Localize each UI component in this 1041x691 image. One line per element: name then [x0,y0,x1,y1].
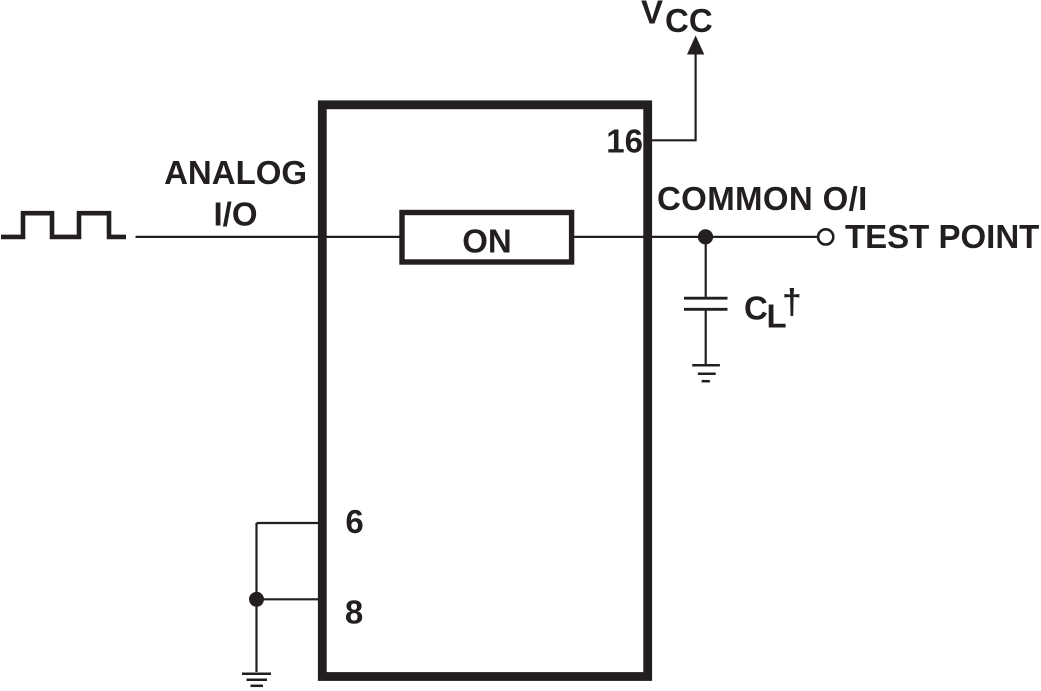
svg-text:TEST POINT: TEST POINT [845,218,1039,255]
svg-text:C: C [744,289,768,326]
svg-text:8: 8 [345,594,363,631]
svg-text:COMMON O/I: COMMON O/I [657,180,868,217]
svg-text:ON: ON [462,223,512,260]
svg-text:V: V [641,0,663,31]
svg-text:ANALOG: ANALOG [164,154,307,191]
svg-text:6: 6 [345,503,363,540]
svg-text:†: † [782,282,802,322]
svg-text:16: 16 [606,123,643,160]
svg-text:CC: CC [665,2,713,39]
svg-text:I/O: I/O [213,196,257,233]
